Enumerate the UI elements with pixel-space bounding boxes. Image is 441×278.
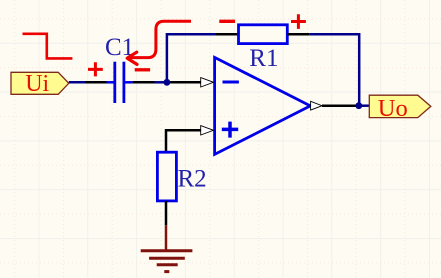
R2 bottom pin: [165, 201, 168, 225]
svg-text:R1: R1: [249, 45, 278, 72]
wire C1 pin to node (black pin segment): [133, 81, 155, 84]
capacitor C1: [107, 62, 133, 103]
red plus annotation (right of R1): [291, 14, 306, 29]
red minus annotation (right of C1): [135, 68, 150, 71]
pin arrow (output): [311, 101, 322, 110]
op-amp U1: [215, 57, 311, 154]
red plus annotation (left of C1): [88, 62, 103, 76]
junction node B (output): [355, 102, 362, 109]
port Ui: [11, 71, 69, 97]
ground: [141, 225, 193, 271]
resistor R2: [157, 152, 176, 201]
wire output node to Uo: [359, 104, 370, 107]
pin arrow (non-inverting input): [201, 126, 214, 135]
R1 left pin: [216, 33, 239, 36]
red curved arrow annotation: [127, 21, 191, 64]
resistor R1: [239, 25, 288, 44]
svg-text:R2: R2: [178, 166, 207, 193]
port Uo: [369, 95, 431, 122]
svg-text:Ui: Ui: [25, 71, 49, 97]
pin arrow (inverting input): [201, 78, 214, 87]
svg-text:Uo: Uo: [378, 95, 408, 122]
wire non-inverting input to R2: [166, 130, 201, 152]
R1 right pin: [287, 33, 309, 36]
feedback wire up and right to R1: [167, 34, 216, 82]
wire (black) into C1 left pin: [85, 81, 107, 84]
junction node A (inverting input): [164, 79, 171, 86]
wire output pin to node: [322, 104, 359, 107]
feedback wire right and down to output: [309, 34, 359, 106]
wire junction to op-amp pin: [167, 81, 201, 84]
wire (navy) into junction: [155, 81, 167, 84]
red minus annotation (left of R1): [219, 20, 235, 23]
red step waveform annotation: [23, 34, 73, 59]
wire Ui to C1: [69, 81, 85, 84]
